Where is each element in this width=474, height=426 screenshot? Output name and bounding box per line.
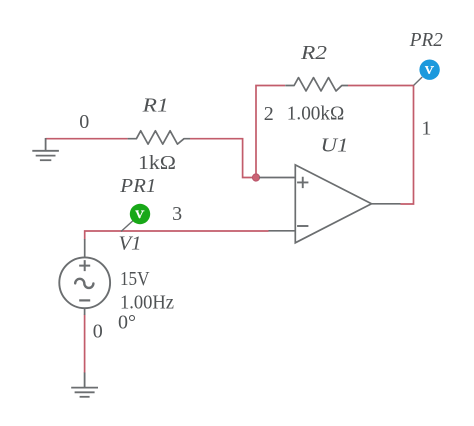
svg-text:0: 0 (93, 321, 103, 343)
svg-text:R1: R1 (142, 95, 169, 117)
svg-text:0°: 0° (118, 312, 136, 334)
svg-text:U1: U1 (321, 135, 349, 157)
wire V1 bottom to ground (node 0) (84, 315, 86, 374)
op-amp minus pin symbol (297, 225, 308, 227)
svg-text:2: 2 (264, 103, 274, 125)
svg-text:PR1: PR1 (119, 175, 156, 197)
junction node dot (252, 174, 259, 181)
svg-text:PR2: PR2 (409, 29, 443, 51)
resistor R1 (128, 131, 190, 144)
probe PR1 (121, 204, 150, 232)
wire junction up to R2 left (node 2) (256, 86, 285, 175)
probe PR2 (414, 59, 440, 85)
ground (bottom, under V1) (71, 373, 98, 397)
svg-text:15V: 15V (120, 268, 150, 290)
svg-text:1.00Hz: 1.00Hz (120, 292, 174, 314)
wire R1 to junction (190, 139, 253, 178)
op-amp U1 (259, 165, 401, 243)
wire R2 right down to op-amp output (node 1) (348, 86, 414, 205)
ground (left) (32, 138, 59, 160)
op-amp plus pin symbol (297, 177, 308, 188)
svg-text:R2: R2 (300, 42, 327, 64)
wire V1 top to op-amp minus input (node 3) (85, 231, 269, 240)
wire ground to R1 (46, 138, 128, 140)
svg-text:3: 3 (172, 203, 182, 225)
svg-text:V1: V1 (119, 233, 142, 255)
svg-text:1kΩ: 1kΩ (138, 152, 176, 174)
svg-text:1.00kΩ: 1.00kΩ (287, 103, 345, 125)
source V1 (59, 239, 110, 315)
svg-text:1: 1 (421, 118, 431, 140)
resistor R2 (285, 78, 348, 91)
svg-text:0: 0 (79, 111, 89, 133)
